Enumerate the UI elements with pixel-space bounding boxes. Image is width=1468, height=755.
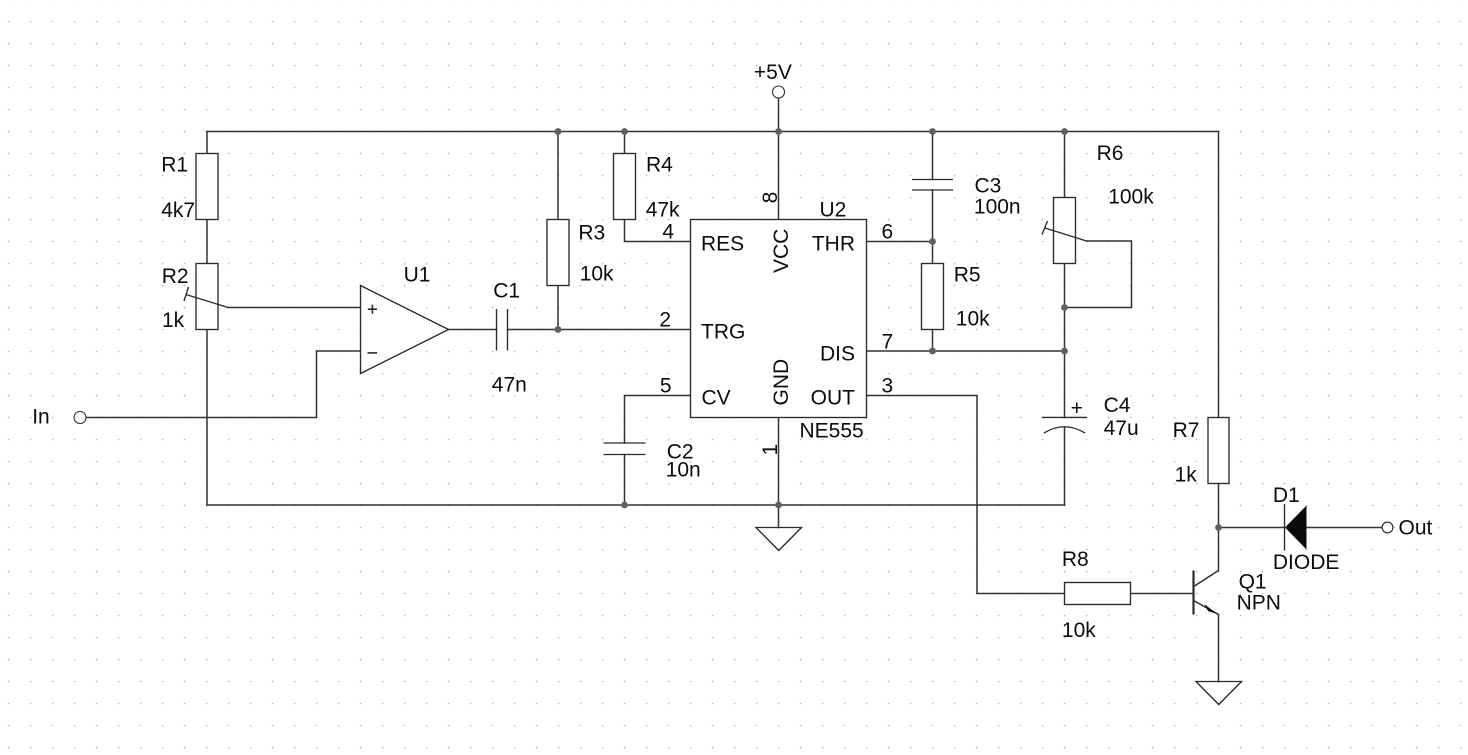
svg-text:In: In <box>32 406 50 429</box>
junction node on rail at C3 <box>929 128 936 135</box>
junction node C2-ground rail <box>621 502 628 509</box>
wire In lead to inverting input <box>86 351 361 418</box>
wire R6 bottom pin <box>1064 264 1066 352</box>
svg-text:U2: U2 <box>820 198 847 221</box>
svg-text:1k: 1k <box>1175 464 1198 487</box>
resistor R5 <box>922 264 944 330</box>
junction node on rail at R4 <box>621 128 628 135</box>
svg-text:4: 4 <box>662 221 674 244</box>
wire VCC pin 8 <box>778 132 780 220</box>
svg-text:R7: R7 <box>1173 419 1200 442</box>
wire R3 bottom pin <box>557 286 559 330</box>
capacitor C4 electrolytic top plate <box>1042 416 1087 418</box>
wire DIS pin 7 rail <box>867 350 1065 352</box>
svg-text:R2: R2 <box>162 265 189 288</box>
wire C2 bottom pin <box>624 455 626 506</box>
wire R5 bottom pin <box>932 330 934 352</box>
junction node TRG <box>555 326 562 333</box>
wire top rail <box>207 131 1219 133</box>
op-amp U1 <box>361 286 449 374</box>
svg-text:4k7: 4k7 <box>161 199 195 222</box>
wire R1-R2 link <box>206 220 208 264</box>
resistor R7 <box>1208 418 1229 484</box>
wire THR pin 6 <box>867 241 933 243</box>
potentiometer R6 <box>1054 198 1076 264</box>
resistor R4 <box>614 154 636 220</box>
svg-text:VCC: VCC <box>770 229 793 273</box>
svg-text:R5: R5 <box>954 263 981 286</box>
svg-text:100n: 100n <box>974 196 1021 219</box>
resistor R8 <box>1065 583 1131 605</box>
svg-text:RES: RES <box>701 233 744 256</box>
svg-text:GND: GND <box>770 359 793 406</box>
wire R6 wiper return loop <box>1065 241 1132 308</box>
svg-text:THR: THR <box>812 233 855 256</box>
capacitor C3 <box>912 180 953 191</box>
transistor Q1 collector diagonal <box>1195 571 1219 587</box>
svg-text:R6: R6 <box>1097 142 1124 165</box>
svg-text:47u: 47u <box>1104 417 1139 440</box>
resistor R1 <box>196 154 218 220</box>
R2 wiper arrow <box>184 287 228 308</box>
U1 plus mark <box>368 305 377 314</box>
wire bottom ground rail <box>207 504 1065 506</box>
wire R7 bottom pin <box>1218 484 1220 528</box>
svg-text:10k: 10k <box>1062 619 1096 642</box>
svg-text:R8: R8 <box>1062 548 1089 571</box>
junction node on rail at R6 <box>1061 128 1068 135</box>
wire R4 to RES pin 4 <box>625 220 691 242</box>
diode D1 cathode bar <box>1284 504 1286 551</box>
resistor R2 (preset) <box>196 264 218 330</box>
wire C4 top pin <box>1064 351 1066 417</box>
wire ground stub U2 <box>778 505 780 528</box>
svg-text:Q1: Q1 <box>1239 570 1267 593</box>
terminal +5V circle <box>773 86 785 98</box>
wire R5 top pin <box>932 242 934 264</box>
svg-text:10n: 10n <box>666 459 701 482</box>
svg-text:C4: C4 <box>1104 394 1131 417</box>
svg-text:47n: 47n <box>492 374 527 397</box>
terminal Out circle <box>1382 522 1393 533</box>
svg-text:R4: R4 <box>646 153 673 176</box>
wire C1 to TRG pin 2 <box>508 329 691 331</box>
svg-text:+5V: +5V <box>754 61 792 84</box>
svg-text:DIODE: DIODE <box>1273 551 1340 574</box>
wire C3 top pin <box>932 132 934 180</box>
ground symbol under Q1 <box>1196 682 1242 705</box>
svg-text:CV: CV <box>702 387 731 410</box>
svg-text:+: + <box>1071 397 1083 420</box>
svg-text:U1: U1 <box>404 263 431 286</box>
wire R6 top pin <box>1064 132 1066 198</box>
junction node R7-D1-Q1 <box>1215 524 1222 531</box>
wire Q1 emitter drop <box>1218 615 1220 682</box>
wire R2 wiper to non-inverting input <box>228 307 361 309</box>
transistor Q1 emitter diagonal <box>1195 601 1219 615</box>
wire R2 bottom to ground rail <box>206 330 208 506</box>
svg-text:Out: Out <box>1399 517 1433 540</box>
junction node GND pin rail <box>775 502 782 509</box>
transistor Q1 base bar <box>1192 571 1194 615</box>
svg-text:10k: 10k <box>956 307 990 330</box>
svg-text:C3: C3 <box>975 175 1002 198</box>
wire R3 top pin <box>557 132 559 220</box>
svg-text:C1: C1 <box>493 280 520 303</box>
svg-text:TRG: TRG <box>701 321 745 344</box>
wire op-amp output to C1 <box>449 329 497 331</box>
svg-text:47k: 47k <box>646 198 680 221</box>
ground symbol under U2 <box>756 528 802 551</box>
IC U2 NE555 body <box>691 220 867 418</box>
Q1 emitter arrow head <box>1204 604 1217 614</box>
svg-text:NPN: NPN <box>1237 591 1281 614</box>
svg-text:10k: 10k <box>580 262 614 285</box>
wire R1 top pin <box>206 132 208 154</box>
U1 minus mark <box>368 352 378 354</box>
capacitor C1 <box>497 309 508 351</box>
svg-text:1k: 1k <box>162 309 185 332</box>
junction node on rail at R3 <box>555 128 562 135</box>
svg-text:1: 1 <box>759 444 782 456</box>
svg-text:2: 2 <box>659 309 671 332</box>
R6 wiper arrow <box>1042 221 1087 241</box>
junction node on rail at +5V <box>775 128 782 135</box>
svg-text:8: 8 <box>759 192 782 204</box>
junction node R6 wiper tie <box>1061 304 1068 311</box>
terminal In circle <box>74 412 86 424</box>
svg-text:5: 5 <box>660 375 672 398</box>
wire C4 bottom pin <box>1064 427 1066 505</box>
junction node THR-C3-R5 <box>929 238 936 245</box>
resistor R3 <box>547 220 569 286</box>
junction node R5-DIS <box>929 348 936 355</box>
wire D1 to Out <box>1307 527 1383 529</box>
svg-text:3: 3 <box>882 375 894 398</box>
svg-text:R3: R3 <box>578 221 605 244</box>
svg-text:6: 6 <box>882 221 894 244</box>
svg-text:7: 7 <box>882 331 894 354</box>
diode D1 triangle <box>1285 506 1307 550</box>
wire node to D1 anode <box>1219 527 1285 529</box>
svg-text:D1: D1 <box>1273 484 1300 507</box>
wire R7 top feed <box>1218 132 1220 418</box>
wire R8 to Q1 base <box>1131 593 1193 595</box>
wire GND pin 1 <box>778 418 780 506</box>
capacitor C2 <box>604 443 646 455</box>
svg-text:NE555: NE555 <box>800 419 864 442</box>
wire OUT pin 3 to R8 <box>867 396 1065 594</box>
wire CV pin 5 to C2 <box>625 396 691 444</box>
svg-text:DIS: DIS <box>820 343 855 366</box>
svg-text:100k: 100k <box>1108 186 1154 209</box>
wire R4 top pin <box>624 132 626 154</box>
wire +5V drop <box>778 98 780 132</box>
capacitor C4 curved plate <box>1044 427 1085 433</box>
svg-text:OUT: OUT <box>811 387 856 410</box>
junction node DIS-C4 <box>1061 348 1068 355</box>
wire Q1 collector riser <box>1218 528 1220 571</box>
svg-text:R1: R1 <box>161 154 188 177</box>
wire C3 bottom pin <box>932 190 934 242</box>
